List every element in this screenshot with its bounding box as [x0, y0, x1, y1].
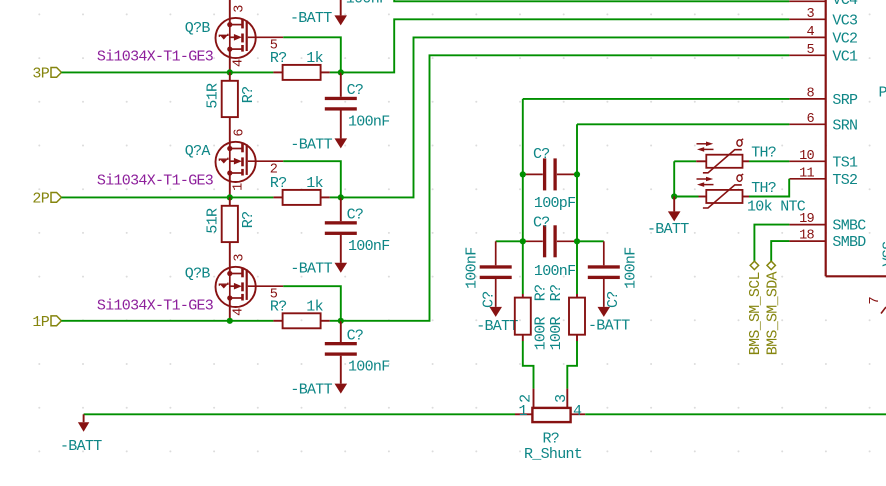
transistor Q?B (cell 3) — [216, 5, 284, 67]
svg-text:R?: R? — [270, 175, 287, 192]
svg-text:TH?: TH? — [751, 180, 776, 197]
svg-text:SMBC: SMBC — [832, 218, 866, 235]
power -BATT (cell 1 cap) — [335, 384, 348, 394]
svg-text:R?: R? — [270, 50, 287, 67]
svg-text:Si1034X-T1-GE3: Si1034X-T1-GE3 — [97, 173, 214, 190]
pin SRP of U? — [789, 86, 858, 109]
junction SRN 100pF — [574, 171, 580, 177]
resistor R? 51R (below cell 3) — [222, 72, 238, 117]
svg-text:C?: C? — [533, 214, 550, 231]
svg-text:51R: 51R — [204, 83, 221, 109]
pin TS1 of U? — [789, 149, 858, 172]
svg-text:1k: 1k — [306, 175, 323, 192]
wire TS2 net — [674, 196, 698, 198]
svg-text:4: 4 — [232, 59, 247, 67]
wire net 3P horizontal — [61, 71, 273, 73]
capacitor C? 100nF (left bypass) — [480, 241, 512, 307]
svg-text:-BATT: -BATT — [647, 221, 689, 238]
svg-text:4: 4 — [573, 403, 582, 420]
wire -BATT bus right — [585, 413, 886, 415]
pin VC3 of U? — [789, 7, 858, 30]
resistor R? 1k (cell 2) — [273, 190, 329, 205]
svg-text:1k: 1k — [306, 50, 323, 67]
pin SMBC of U? — [789, 212, 866, 235]
hierarchical label 2P — [32, 191, 61, 208]
wire left sense to shunt pin 2 — [523, 341, 534, 389]
power -BATT (right bypass) — [598, 307, 611, 317]
wire gate pin 2 to junction — [283, 161, 341, 197]
thermistor TH? (upper) — [697, 139, 744, 173]
svg-text:100R: 100R — [532, 316, 549, 350]
svg-text:100nF: 100nF — [623, 247, 640, 289]
wire right sense to shunt pin 3 — [567, 341, 577, 389]
resistor R? 51R (below cell 2) — [222, 197, 238, 242]
svg-text:VC3: VC3 — [832, 12, 858, 29]
svg-text:-BATT: -BATT — [60, 438, 102, 455]
pin VC2 of U? — [789, 25, 857, 48]
pin VC1 of U? — [789, 43, 858, 66]
wire -BATT bus left — [84, 413, 515, 415]
svg-text:4: 4 — [807, 25, 815, 40]
svg-text:4: 4 — [232, 308, 247, 316]
svg-text:5: 5 — [807, 43, 815, 58]
svg-text:10: 10 — [799, 149, 814, 164]
svg-text:100nF: 100nF — [346, 0, 388, 8]
svg-text:6: 6 — [233, 129, 248, 137]
op-amp U? AFE IC body (left edge, partially off-canvas) — [826, 0, 886, 276]
wire net 1P horizontal — [61, 320, 273, 322]
svg-text:BMS_SM_SDA: BMS_SM_SDA — [765, 271, 782, 355]
wire net 4P to VC4 — [394, 0, 789, 1]
svg-text:SRP: SRP — [832, 92, 858, 109]
thermistor TH? (lower) — [697, 174, 744, 208]
svg-text:100nF: 100nF — [348, 238, 390, 255]
svg-text:PA: PA — [879, 84, 886, 101]
capacitor C? 100nF (right bypass) — [588, 241, 620, 307]
wire drain pin top (cell 2) — [229, 117, 231, 148]
wire gate pin 5 to junction — [283, 286, 341, 321]
power -BATT (cell 2 cap) — [335, 263, 348, 273]
wire SRN to right bypass cap — [577, 240, 604, 242]
svg-text:Si1034X-T1-GE3: Si1034X-T1-GE3 — [97, 298, 214, 315]
svg-text:-BATT: -BATT — [476, 318, 518, 335]
svg-text:R?: R? — [532, 285, 549, 302]
junction node 1P at transistor — [227, 318, 233, 324]
pin TS2 of U? — [789, 166, 857, 189]
svg-text:C?: C? — [481, 291, 498, 308]
svg-text:1: 1 — [232, 183, 247, 191]
wire 1k to junction — [330, 320, 341, 322]
svg-text:-BATT: -BATT — [290, 136, 332, 153]
svg-text:-BATT: -BATT — [290, 261, 332, 278]
svg-text:100nF: 100nF — [464, 247, 481, 289]
wire net 2P horizontal — [61, 196, 273, 198]
resistor R? 100R (left sense) — [515, 294, 531, 341]
svg-text:R?: R? — [240, 212, 257, 229]
wire 1k to junction — [330, 71, 341, 73]
svg-text:51R: 51R — [204, 208, 221, 234]
svg-text:8: 8 — [807, 86, 815, 101]
wire gate pin 5 to junction — [283, 37, 341, 72]
wire source pin to net (cell 1) — [229, 298, 231, 321]
junction thermistor common — [671, 193, 677, 199]
svg-text:-BATT: -BATT — [290, 382, 332, 399]
svg-text:Si1034X-T1-GE3: Si1034X-T1-GE3 — [97, 49, 214, 66]
svg-text:3P: 3P — [32, 66, 49, 83]
svg-text:10k NTC: 10k NTC — [747, 198, 806, 215]
svg-text:C?: C? — [347, 82, 364, 99]
svg-text:2: 2 — [518, 394, 535, 402]
resistor R? 1k (cell 3) — [273, 65, 329, 80]
wire SRN net — [577, 123, 789, 125]
capacitor C? 100nF (cell 2) — [325, 197, 357, 262]
svg-text:100pF: 100pF — [534, 195, 576, 212]
wire net 3P riser to IC — [341, 19, 790, 72]
svg-text:3: 3 — [233, 254, 248, 262]
svg-text:TS2: TS2 — [832, 172, 857, 189]
svg-text:100R: 100R — [548, 316, 565, 350]
capacitor C? 100pF (across SRP/SRN) — [523, 158, 577, 190]
svg-text:R_Shunt: R_Shunt — [524, 446, 582, 463]
svg-text:-BATT: -BATT — [290, 10, 332, 27]
svg-text:VSS: VSS — [881, 241, 886, 267]
svg-text:Q?B: Q?B — [185, 265, 211, 282]
power -BATT (left bypass) — [489, 307, 502, 317]
wire drain pin top (cell 1) — [229, 242, 231, 273]
svg-text:R?: R? — [240, 87, 257, 104]
junction node 3P at transistor — [227, 69, 233, 75]
svg-text:VC1: VC1 — [832, 48, 858, 65]
svg-text:C?: C? — [605, 291, 622, 308]
junction node (gate RC) — [338, 194, 344, 200]
svg-text:1: 1 — [519, 403, 528, 420]
svg-text:TS1: TS1 — [832, 154, 858, 171]
power -BATT (thermistors) — [668, 197, 681, 222]
svg-text:11: 11 — [799, 166, 814, 181]
svg-text:100nF: 100nF — [348, 114, 390, 131]
pin VC4 of U? — [789, 0, 858, 9]
svg-text:3: 3 — [807, 7, 815, 22]
pin SRN of U? — [789, 112, 857, 135]
svg-text:Q?B: Q?B — [185, 20, 211, 37]
svg-text:7: 7 — [868, 297, 883, 305]
transistor Q?A (cell 2) — [216, 129, 284, 191]
junction node 2P at transistor — [227, 194, 233, 200]
wire drain pin top (cell 3) — [229, 0, 231, 25]
junction node (gate RC) — [338, 318, 344, 324]
wire 1k to junction — [330, 196, 341, 198]
svg-text:Q?A: Q?A — [185, 143, 211, 160]
svg-text:BMS_SM_SCL: BMS_SM_SCL — [747, 271, 764, 355]
wire thermistor common vertical — [673, 161, 675, 196]
resistor R? R_Shunt — [515, 408, 585, 422]
svg-text:3: 3 — [553, 394, 570, 403]
svg-text:3: 3 — [233, 5, 248, 13]
wire TS1 net — [674, 160, 696, 162]
pin 7 of U? (bottom, cut off) — [868, 297, 886, 314]
wire source pin to net (cell 3) — [229, 49, 231, 72]
svg-text:-BATT: -BATT — [588, 318, 630, 335]
svg-text:2P: 2P — [32, 191, 49, 208]
wire SMBC to global label — [754, 225, 789, 262]
junction node (gate RC) — [338, 69, 344, 75]
capacitor C? 100nF (cell 1) — [325, 321, 357, 384]
power -BATT (bus) — [78, 414, 89, 432]
global label BMS_SM_SCL — [747, 261, 764, 355]
transistor Q?B (cell 1) — [216, 254, 284, 316]
svg-text:VC4: VC4 — [832, 0, 858, 9]
wire TH? lower to TS2 pin — [743, 196, 750, 198]
svg-text:1k: 1k — [306, 299, 323, 316]
pin SMBD of U? — [789, 229, 866, 252]
svg-text:R?: R? — [270, 299, 287, 316]
hierarchical label 3P — [32, 66, 61, 83]
capacitor C? 100nF (cell 3) — [325, 72, 357, 138]
junction SRP 100nF — [520, 238, 526, 244]
wire SMBD to global label — [771, 241, 789, 261]
svg-text:VC2: VC2 — [832, 30, 857, 47]
svg-text:100nF: 100nF — [534, 263, 576, 280]
wire net 1P riser to IC — [341, 55, 790, 321]
power -BATT (cell 3 cap) — [335, 138, 348, 148]
junction SRN 100nF — [574, 238, 580, 244]
svg-text:1P: 1P — [32, 314, 49, 331]
svg-text:R?: R? — [548, 285, 565, 302]
svg-text:C?: C? — [347, 327, 364, 344]
svg-text:SMBD: SMBD — [832, 234, 866, 251]
power -BATT (top cut-off cell cap) — [334, 0, 347, 25]
svg-text:100nF: 100nF — [348, 359, 390, 376]
capacitor C? 100nF (across SRP/SRN) — [523, 225, 577, 257]
resistor R? 1k (cell 1) — [273, 313, 329, 328]
junction SRP 100pF — [520, 171, 526, 177]
wire source pin to net (cell 2) — [229, 173, 231, 197]
wire SRP to left bypass cap — [496, 240, 523, 242]
hierarchical label 1P — [32, 314, 61, 331]
wire net 2P riser to IC — [341, 37, 790, 197]
global label BMS_SM_SDA — [765, 261, 782, 355]
wire SRP net — [523, 98, 790, 100]
svg-text:18: 18 — [799, 229, 814, 244]
svg-text:C?: C? — [533, 146, 550, 163]
svg-text:C?: C? — [347, 207, 364, 224]
svg-text:SRN: SRN — [832, 117, 857, 134]
svg-text:TH?: TH? — [751, 145, 776, 162]
resistor R? 100R (right sense) — [569, 294, 585, 341]
wire TH? upper to TS1 pin — [743, 160, 750, 162]
svg-text:6: 6 — [807, 112, 815, 127]
